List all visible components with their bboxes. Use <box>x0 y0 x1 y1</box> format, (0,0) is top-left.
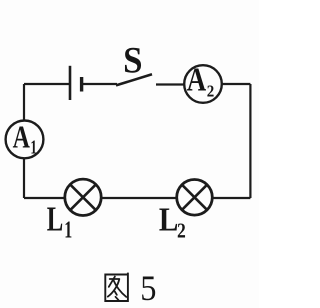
caption character 图 box <box>105 273 128 301</box>
svg-text:1: 1 <box>64 218 72 244</box>
ammeter A1 circle <box>6 120 44 158</box>
svg-text:S: S <box>123 40 142 81</box>
svg-text:A: A <box>187 62 207 99</box>
lamp L2 circle <box>177 180 213 216</box>
wire A2 to top-right corner <box>222 83 251 85</box>
ammeter A2 circle <box>184 65 222 103</box>
svg-text:L: L <box>159 202 179 239</box>
wire top-left segment <box>24 83 70 85</box>
lamp L2 cross <box>182 185 207 210</box>
battery long plate (positive) <box>69 66 72 100</box>
wire switch to ammeter A2 <box>156 83 184 85</box>
svg-text:L: L <box>47 200 64 239</box>
wire left side lower <box>23 158 25 198</box>
svg-text:5: 5 <box>140 268 156 308</box>
wire left side upper <box>23 84 25 121</box>
wire right side <box>249 84 251 198</box>
lamp L1 cross <box>70 184 96 210</box>
wire L2 to L1 <box>101 197 177 199</box>
svg-text:2: 2 <box>207 81 215 100</box>
wire bottom-right segment <box>212 197 250 199</box>
lamp L1 circle <box>65 179 101 215</box>
battery short plate (negative) <box>80 77 83 92</box>
caption character 图 inner strokes <box>108 277 127 301</box>
switch S lever <box>116 74 152 85</box>
svg-text:A: A <box>13 118 30 154</box>
svg-text:1: 1 <box>30 136 37 158</box>
wire L1 to bottom-left corner <box>24 197 65 199</box>
wire battery to switch <box>82 83 117 85</box>
svg-text:2: 2 <box>177 219 186 243</box>
